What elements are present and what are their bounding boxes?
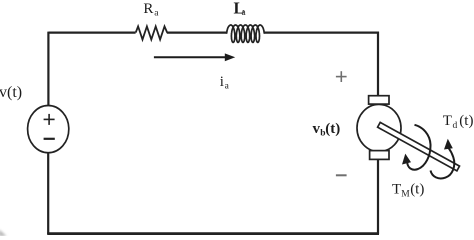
svg-text:M: M	[401, 190, 410, 200]
svg-text:a: a	[242, 8, 247, 18]
label ia	[220, 74, 230, 92]
wire inductor to top right corner	[264, 31, 379, 33]
label - (motor polarity)	[336, 174, 347, 176]
resistor Ra	[136, 26, 168, 39]
wire left vertical upper	[47, 32, 49, 106]
svg-text:v: v	[313, 121, 321, 137]
svg-text:d: d	[453, 121, 458, 131]
svg-text:i: i	[220, 74, 224, 90]
rotation arrow TM (left arc)	[402, 125, 431, 170]
current arrow ia	[154, 53, 235, 61]
inductor La	[227, 25, 265, 42]
label La	[234, 0, 247, 18]
motor body	[357, 96, 401, 160]
svg-text:T: T	[392, 182, 401, 198]
svg-text:(t): (t)	[410, 182, 424, 198]
wire left vertical lower	[47, 153, 49, 235]
label vb(t)	[313, 121, 341, 139]
wire top left segment	[49, 31, 136, 33]
svg-text:a: a	[225, 82, 230, 92]
rotation arrow Td (right arc)	[431, 139, 455, 179]
wire between resistor and inductor	[167, 31, 227, 33]
svg-text:(t): (t)	[459, 113, 473, 129]
svg-text:T: T	[443, 113, 452, 129]
label Td(t)	[443, 113, 474, 131]
wire right vertical upper	[377, 32, 379, 96]
svg-text:R: R	[143, 1, 153, 17]
voltage source V	[28, 106, 69, 153]
label Ra	[143, 1, 159, 19]
wire right vertical lower	[377, 159, 379, 234]
svg-text:a: a	[154, 9, 159, 19]
label + (motor polarity)	[336, 71, 347, 82]
label TM(t)	[392, 182, 424, 200]
svg-text:v(t): v(t)	[0, 84, 22, 101]
svg-text:(t): (t)	[325, 121, 340, 137]
wire bottom	[47, 232, 379, 235]
shaft	[378, 122, 460, 170]
